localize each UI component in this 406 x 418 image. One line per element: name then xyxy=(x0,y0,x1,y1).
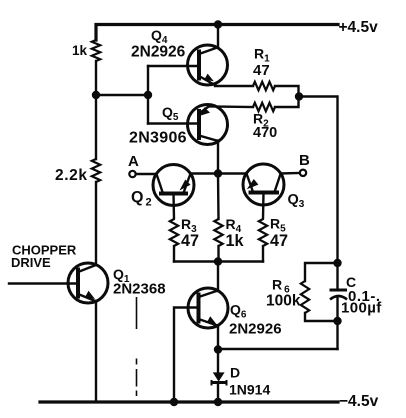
resistor 2.2k (left rail) xyxy=(92,159,100,182)
transistor Q3 xyxy=(243,164,284,219)
svg-text:2N2368: 2N2368 xyxy=(113,281,166,298)
wire: bottom -4.5V rail xyxy=(40,400,338,403)
wire: Q5 base wire y=123.5 xyxy=(148,122,198,124)
chassis dash-dot line xyxy=(136,297,138,396)
wire: resistor bottoms bus y=261.5 xyxy=(174,260,263,262)
wire: Q4 emitter to R1 xyxy=(215,85,253,87)
transistor Q2 xyxy=(153,165,194,220)
transistor Q1 (2N2368) xyxy=(68,263,108,303)
svg-text:100µf: 100µf xyxy=(341,300,382,317)
wire: R1 right to junction xyxy=(275,86,299,97)
node: junction R1/R2 (299,96.5) xyxy=(295,92,303,100)
wire: Q1 emitter to bottom rail xyxy=(95,301,97,402)
wire: junction to right vertical rail xyxy=(299,97,338,264)
wire: center vertical junction to R4 xyxy=(217,174,220,220)
wire: Q5 emitter to R2 xyxy=(210,105,253,108)
resistor 1k (left rail) xyxy=(92,40,100,61)
resistor R6 zigzag xyxy=(301,281,309,313)
wire: R6 bottom branch xyxy=(305,313,338,321)
wire: left rail 2.2k to Q1 collector xyxy=(95,182,97,265)
node: junction top rail / Q4 collector xyxy=(214,20,222,28)
svg-text:47: 47 xyxy=(270,232,288,250)
resistor R1 zigzag xyxy=(253,82,275,90)
wire: Q2 to center junction xyxy=(191,172,247,174)
wire: R2 right to junction xyxy=(275,97,299,108)
node: junction A-B line / center vertical xyxy=(214,169,222,177)
resistor R5 zigzag xyxy=(259,219,267,246)
node: junction Q6 emitter / diode xyxy=(214,345,222,353)
svg-text:+4.5v: +4.5v xyxy=(339,19,379,36)
wire: base feed horizontal (96,95)-(148,95) xyxy=(96,94,148,96)
wire: right vertical C bottom to y=349 xyxy=(336,321,338,349)
wire: top +4.5V supply rail xyxy=(96,25,338,41)
node: junction bottom rail / diode xyxy=(214,398,222,406)
transistor Q5 (2N3906 PNP) xyxy=(188,105,228,174)
wire: A to Q2 xyxy=(136,173,157,175)
terminal A xyxy=(129,171,135,177)
resistor R3 zigzag xyxy=(170,219,178,246)
svg-text:47: 47 xyxy=(253,62,270,79)
svg-text:47: 47 xyxy=(181,232,199,250)
wire: Q4 base wire y=66 xyxy=(148,65,198,67)
svg-text:2N2926: 2N2926 xyxy=(229,321,282,338)
svg-text:DRIVE: DRIVE xyxy=(11,255,51,270)
wire: base feed vertical x=148 xyxy=(147,66,149,124)
resistor R2 zigzag xyxy=(253,103,275,111)
node: junction left rail / base feed (96,95) xyxy=(92,91,100,99)
wire: Q3 to B terminal xyxy=(281,172,300,175)
resistor R4 zigzag xyxy=(214,219,222,246)
svg-text:D: D xyxy=(230,365,240,381)
wire: R5 bottom stub xyxy=(262,246,264,262)
svg-text:1N914: 1N914 xyxy=(229,382,270,398)
wire: chopper drive input to Q1 base xyxy=(9,282,77,284)
svg-text:−4.5v: −4.5v xyxy=(339,393,379,410)
wire: Q6 emitter bus to right rail y=349 xyxy=(218,348,338,350)
wire: R3 bottom stub xyxy=(173,246,175,262)
capacitor C xyxy=(330,263,348,321)
svg-text:A: A xyxy=(128,153,139,170)
svg-text:2N3906: 2N3906 xyxy=(129,130,187,147)
node: junction bottom rail / Q6 base leg xyxy=(170,398,178,406)
transistor Q6 (2N2926) xyxy=(188,288,228,350)
svg-text:2.2k: 2.2k xyxy=(55,167,88,184)
svg-text:1k: 1k xyxy=(72,43,88,58)
wire: center vertical to Q6 collector xyxy=(217,262,219,292)
wire: R6 top branch xyxy=(305,263,338,281)
svg-text:1k: 1k xyxy=(226,232,245,250)
node: junction bus / center vertical xyxy=(214,257,222,265)
transistor Q4 (2N2926 NPN) xyxy=(188,25,228,86)
diode D (1N914) xyxy=(212,349,227,402)
wire: Q6 base wire and down to rail xyxy=(174,308,198,403)
svg-text:B: B xyxy=(299,152,310,169)
svg-text:100k: 100k xyxy=(266,293,301,310)
terminal B xyxy=(300,170,306,176)
wire: left rail between 1k and 2.2k xyxy=(95,61,97,159)
wire: R4 bottom stub xyxy=(217,246,219,262)
node: junction right rail / R6-C bottom xyxy=(333,317,341,325)
node: junction right rail / R6-C top xyxy=(333,259,341,267)
svg-text:470: 470 xyxy=(253,125,277,141)
node: junction base feed split (148,95) xyxy=(144,91,152,99)
svg-text:2N2926: 2N2926 xyxy=(131,44,186,61)
